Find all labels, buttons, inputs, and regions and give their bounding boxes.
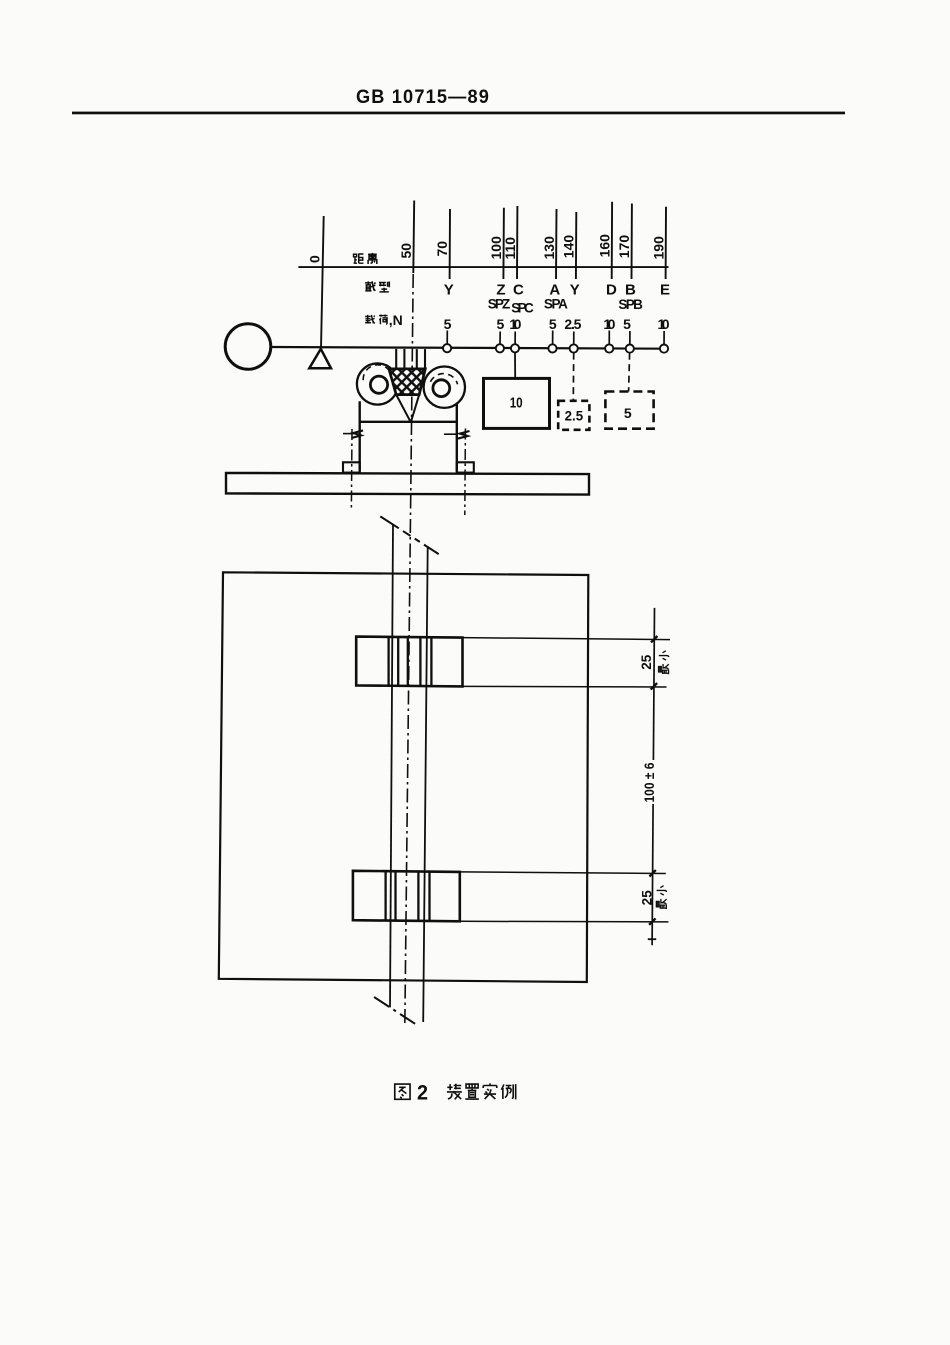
svg-text:GB 10715—89: GB 10715—89 xyxy=(356,87,490,108)
dashed box 5 xyxy=(605,392,653,429)
dashed box 2.5 xyxy=(558,401,589,430)
svg-text:140: 140 xyxy=(560,235,576,259)
dimension slash ticks xyxy=(649,636,657,925)
tick 100 xyxy=(502,208,505,279)
svg-text:SPB: SPB xyxy=(618,297,643,312)
svg-text:5: 5 xyxy=(623,316,631,332)
lower break diagonal (dashed) xyxy=(374,997,419,1026)
label 截型 xyxy=(365,281,376,291)
svg-text:10: 10 xyxy=(509,316,521,332)
tick 190 xyxy=(665,207,667,279)
load values row xyxy=(444,316,670,332)
right pulley pitch arc (dashed) xyxy=(430,374,457,385)
svg-text:Y: Y xyxy=(570,282,580,299)
right foot xyxy=(457,462,474,472)
dashed drop line to 2.5 box xyxy=(572,353,574,401)
svg-text:2.5: 2.5 xyxy=(565,409,584,424)
svg-text:E: E xyxy=(660,282,670,299)
svg-text:5: 5 xyxy=(549,316,557,332)
big pulley rectangle xyxy=(219,572,589,982)
drop line to 10 box xyxy=(514,352,516,378)
svg-text:Y: Y xyxy=(444,282,454,299)
svg-text:130: 130 xyxy=(541,236,557,260)
dimension line bottom dash xyxy=(648,938,656,940)
svg-text:2: 2 xyxy=(417,1082,428,1105)
band 1 dividers xyxy=(389,637,432,686)
band 1 outline xyxy=(356,637,462,687)
left pulley pitch arc (dashed) xyxy=(363,365,392,380)
tick 0 (extends down to fulcrum) xyxy=(321,216,324,349)
dashed drop line to 5 box xyxy=(629,353,630,392)
right pulley bore xyxy=(433,380,450,397)
band 2 dividers xyxy=(386,871,430,921)
fulcrum triangle xyxy=(309,349,331,368)
left pulley bore xyxy=(370,376,387,393)
svg-text:5: 5 xyxy=(444,316,452,332)
band 2 bottom extension line xyxy=(460,920,669,923)
svg-text:C: C xyxy=(513,282,524,299)
left bolt centerline xyxy=(350,429,353,508)
tick 50 upper xyxy=(412,201,415,274)
belt edge line right (shaft) xyxy=(423,547,428,1022)
tick 140 xyxy=(575,212,577,279)
svg-text:160: 160 xyxy=(596,234,612,258)
svg-text:5: 5 xyxy=(624,405,632,421)
svg-text:10: 10 xyxy=(603,316,615,332)
band 2 top extension line xyxy=(460,872,666,874)
right clamp screw symbol xyxy=(458,431,470,439)
tick 160 xyxy=(611,202,613,279)
svg-text:10: 10 xyxy=(510,396,523,412)
svg-text:170: 170 xyxy=(616,235,632,259)
band 1 top extension line xyxy=(463,638,671,640)
belt edge line left (shaft) xyxy=(390,525,393,1008)
dimension vertical line upper part xyxy=(653,608,654,760)
tick 170 xyxy=(631,204,633,280)
main vertical centerline (dash-dot, 50 position down to bottom break) xyxy=(405,274,413,1027)
right bolt centerline xyxy=(464,429,467,516)
svg-text:SPC: SPC xyxy=(511,301,534,316)
tick 130 xyxy=(555,209,558,279)
load point circles xyxy=(443,344,668,353)
clamp left plate xyxy=(395,349,397,369)
right pulley outer xyxy=(424,367,465,408)
svg-text:5: 5 xyxy=(497,316,505,332)
svg-text:2.5: 2.5 xyxy=(564,316,581,332)
svg-text:SPZ: SPZ xyxy=(488,297,511,312)
header rule xyxy=(72,112,845,115)
svg-text:D: D xyxy=(606,282,617,299)
left pulley outer xyxy=(357,363,398,404)
label 最小 (lower, rotated) xyxy=(656,886,666,909)
V guide right xyxy=(411,395,419,422)
svg-text:SPA: SPA xyxy=(544,297,568,312)
V guide left xyxy=(396,395,410,422)
label 载荷,N xyxy=(365,315,375,324)
left foot xyxy=(343,462,360,472)
tick 110 xyxy=(516,206,518,279)
svg-text:70: 70 xyxy=(434,241,450,257)
upper break diagonal (dashed) xyxy=(380,516,438,554)
svg-text:110: 110 xyxy=(502,237,518,260)
solid box 10 xyxy=(484,378,550,428)
svg-text:0: 0 xyxy=(307,255,323,263)
caption: 图 2 装置实例 xyxy=(395,1082,516,1105)
svg-text:,N: ,N xyxy=(389,312,403,328)
lever beam line xyxy=(271,347,669,349)
svg-text:10: 10 xyxy=(658,316,670,332)
svg-text:190: 190 xyxy=(650,236,666,260)
load hanger ticks xyxy=(447,331,664,345)
clamp right plate xyxy=(416,349,418,369)
ruler horizontal line xyxy=(298,266,668,268)
right clamp screw line xyxy=(444,433,458,435)
belt section letters row xyxy=(444,282,670,299)
tick 70 xyxy=(449,209,451,279)
housing divider xyxy=(360,421,457,423)
left clamp screw symbol xyxy=(352,430,364,438)
band 2 outline xyxy=(353,871,460,922)
band 1 bottom extension line xyxy=(463,685,667,688)
svg-text:50: 50 xyxy=(398,243,414,259)
base plate xyxy=(226,473,589,495)
weight circle xyxy=(225,324,271,370)
label 距离 xyxy=(354,254,364,263)
svg-text:25: 25 xyxy=(639,890,654,906)
housing right wall xyxy=(456,403,458,472)
left clamp screw line xyxy=(343,433,357,435)
svg-text:25: 25 xyxy=(639,654,654,670)
svg-text:100 ± 6: 100 ± 6 xyxy=(642,762,657,802)
label 最小 (upper, rotated) xyxy=(659,651,669,674)
housing left wall xyxy=(359,401,361,472)
dimension vertical line lower part xyxy=(652,804,653,945)
SP group labels xyxy=(488,297,643,316)
rotated distance labels xyxy=(307,234,667,263)
V-belt cross-hatched section xyxy=(389,369,425,395)
